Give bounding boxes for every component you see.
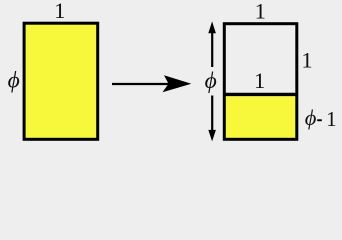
- svg-text:ϕ: ϕ: [305, 105, 317, 130]
- svg-text:1: 1: [326, 107, 337, 131]
- svg-text:1: 1: [254, 68, 265, 93]
- svg-text:ϕ: ϕ: [205, 68, 217, 94]
- svg-text:1: 1: [255, 0, 266, 24]
- svg-text:1: 1: [54, 0, 65, 23]
- svg-text:ϕ: ϕ: [8, 68, 20, 94]
- svg-text:1: 1: [301, 47, 312, 72]
